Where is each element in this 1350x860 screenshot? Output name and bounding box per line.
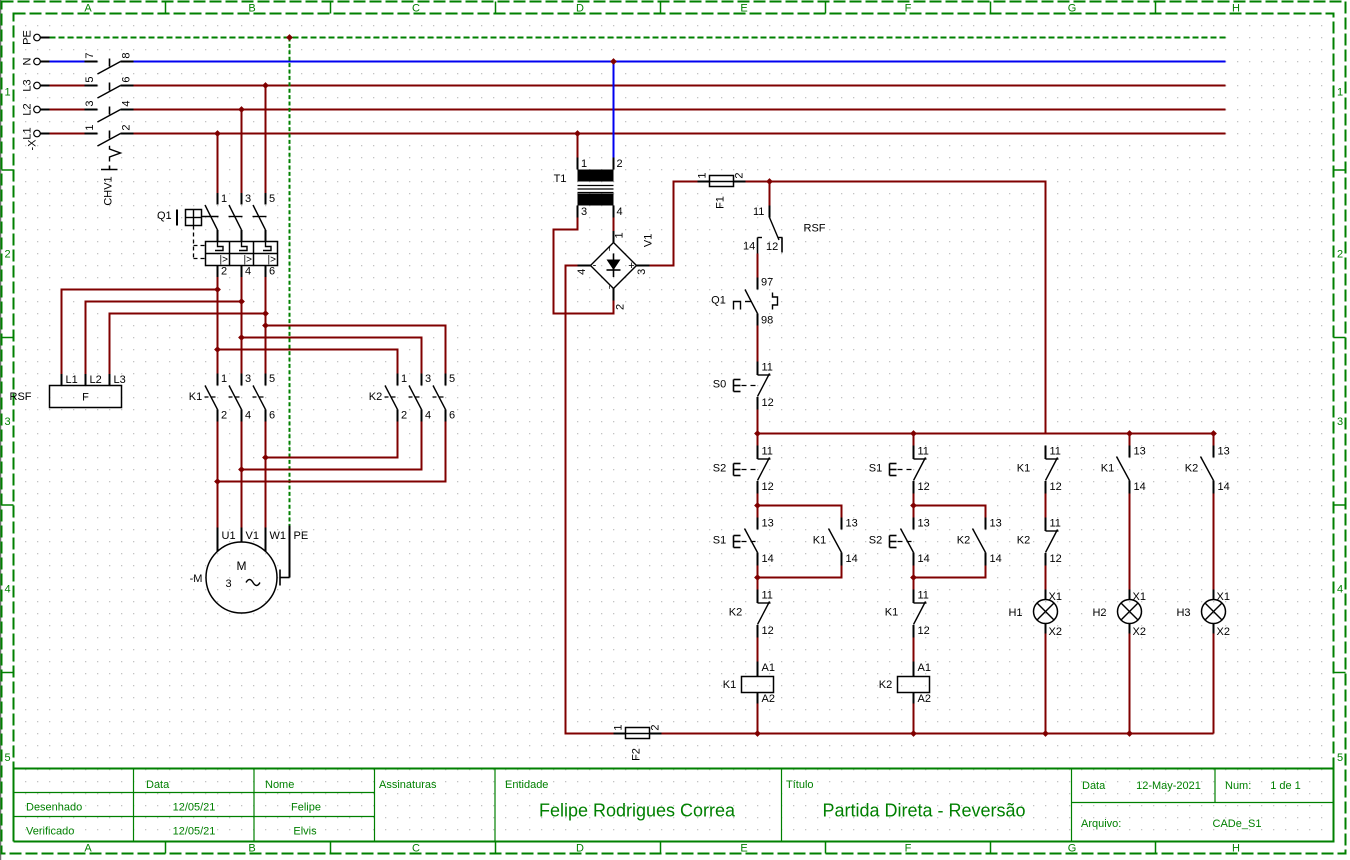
node bus col5 (1210, 430, 1217, 437)
wire L1 rail (50, 133, 1226, 135)
svg-text:2: 2 (121, 124, 133, 130)
node bus S0 (754, 430, 761, 437)
svg-text:3: 3 (245, 373, 251, 385)
svg-text:Desenhado: Desenhado (26, 802, 82, 814)
wire lamp H1 to bottom bus (1045, 634, 1047, 734)
node L1/T1 junction (574, 130, 581, 137)
pushbutton S2 NO contact col2 (901, 518, 930, 566)
svg-text:4: 4 (576, 269, 588, 275)
svg-text:S0: S0 (713, 379, 726, 391)
wire lamp H3 to bottom bus (1213, 634, 1215, 734)
svg-text:Num:: Num: (1225, 780, 1251, 792)
node F1 output junction (766, 178, 773, 185)
wire K2.2 crossover (266, 422, 398, 458)
wire PE rail (50, 37, 1226, 39)
contactor K2 main contacts (369, 373, 455, 422)
svg-text:S1: S1 (869, 463, 882, 475)
svg-text:L2: L2 (90, 374, 102, 386)
wire L3 rail (50, 85, 1226, 87)
wire Q1.6 to K1.5 (265, 277, 267, 374)
svg-text:K1: K1 (813, 535, 826, 547)
node crossover L1 (214, 478, 221, 485)
wire L2 rail (50, 109, 1226, 111)
node F tap L2 (238, 298, 245, 305)
svg-text:X1: X1 (1049, 591, 1062, 603)
svg-text:6: 6 (269, 266, 275, 278)
title block text (26, 779, 1301, 838)
interlock contact K1 11-12 (885, 590, 930, 638)
svg-text:CHV1: CHV1 (103, 176, 115, 205)
svg-text:L1: L1 (22, 127, 34, 139)
wire RSF.14 to Q1.97 (757, 254, 759, 278)
svg-text:11: 11 (918, 590, 929, 602)
svg-text:Q1: Q1 (157, 210, 172, 222)
svg-text:Partida Direta - Reversão: Partida Direta - Reversão (822, 801, 1025, 821)
svg-text:11: 11 (753, 206, 764, 218)
svg-text:97: 97 (761, 277, 773, 289)
svg-text:Felipe Rodrigues Correa: Felipe Rodrigues Correa (539, 801, 736, 821)
svg-text:5: 5 (1337, 752, 1343, 764)
svg-text:2: 2 (221, 410, 227, 422)
svg-text:14: 14 (990, 553, 1002, 565)
fuse F1 (697, 172, 746, 208)
node crossover L2 (238, 466, 245, 473)
pushbutton S2 actuator and label col2 (890, 536, 912, 548)
svg-text:11: 11 (1050, 518, 1061, 530)
svg-text:11: 11 (918, 446, 929, 458)
svg-text:2: 2 (401, 410, 407, 422)
svg-text:~: ~ (605, 245, 616, 251)
svg-text:4: 4 (4, 584, 10, 596)
svg-text:F: F (905, 843, 912, 855)
node bottom bus K1 (754, 730, 761, 737)
svg-text:Entidade: Entidade (505, 779, 548, 791)
svg-text:4: 4 (121, 100, 133, 106)
contactor K1 main contacts (189, 373, 275, 422)
wire V1.3 plus to F1 (650, 182, 698, 266)
contact K1 11-12 lamp column (1017, 446, 1062, 494)
svg-text:S2: S2 (869, 535, 882, 547)
svg-text:11: 11 (762, 590, 773, 602)
wire rail to RSF.11 (769, 182, 771, 206)
svg-text:1: 1 (581, 158, 587, 170)
wire F1 to control rail (746, 182, 1046, 434)
svg-text:PE: PE (294, 530, 309, 542)
wire bus to S1.11 (913, 434, 915, 446)
wire coil K1 to bottom bus (757, 704, 759, 734)
svg-text:X1: X1 (1133, 591, 1146, 603)
wire S2.12 to node (757, 494, 759, 518)
svg-text:A1: A1 (918, 662, 931, 674)
svg-text:1: 1 (614, 232, 626, 238)
wire seal branch bottom K2 (914, 566, 986, 578)
svg-text:B: B (248, 3, 255, 15)
svg-text:H2: H2 (1092, 607, 1106, 619)
svg-text:N: N (22, 57, 34, 65)
wire K2.4 crossover (242, 422, 422, 470)
svg-text:8: 8 (121, 52, 133, 58)
svg-text:M: M (237, 559, 247, 573)
circuit breaker Q1 (motor protective switch) (157, 193, 278, 278)
node seal branch K1 (754, 502, 761, 509)
svg-text:14: 14 (743, 241, 755, 253)
svg-text:Felipe: Felipe (291, 802, 321, 814)
node bottom bus H1 (1042, 730, 1049, 737)
svg-text:Q1: Q1 (711, 295, 726, 307)
svg-text:PE: PE (22, 30, 34, 45)
node F tap L1 (214, 286, 221, 293)
svg-text:3: 3 (4, 416, 10, 428)
svg-text:12/05/21: 12/05/21 (173, 802, 216, 814)
svg-text:-: - (593, 260, 597, 272)
svg-text:2: 2 (615, 304, 627, 310)
svg-text:L1: L1 (66, 374, 78, 386)
node bus col2 (910, 430, 917, 437)
svg-text:K1: K1 (1101, 463, 1114, 475)
svg-text:1: 1 (1337, 87, 1343, 99)
svg-text:1: 1 (697, 172, 709, 178)
wire control bus row3 (758, 433, 1214, 435)
lamp H3 (1176, 590, 1230, 639)
wire L2 feed to K2.3 (242, 338, 422, 374)
svg-text:H: H (1232, 3, 1240, 15)
wire K1.6 to motor W1 (265, 422, 267, 528)
svg-text:3: 3 (245, 193, 251, 205)
svg-text:1: 1 (401, 373, 407, 385)
svg-text:3: 3 (1337, 416, 1343, 428)
svg-text:2: 2 (1337, 249, 1343, 261)
node K2 feed L3 (262, 322, 269, 329)
wire K2.12 to lamp H1 (1045, 566, 1047, 590)
svg-text:12-May-2021: 12-May-2021 (1136, 780, 1201, 792)
svg-text:3: 3 (425, 373, 431, 385)
overload relay contact RSF 11-12-14 (743, 206, 826, 254)
wire Q1.98 to S0.11 (757, 326, 759, 362)
svg-text:K2: K2 (879, 679, 892, 691)
pushbutton S1 actuator and label (734, 536, 756, 548)
svg-text:3: 3 (581, 206, 587, 218)
svg-text:CADe_S1: CADe_S1 (1213, 818, 1262, 830)
svg-text:K1: K1 (723, 679, 736, 691)
svg-text:U1: U1 (222, 530, 236, 542)
svg-text:A1: A1 (762, 662, 775, 674)
wire S1.14 to node (757, 566, 759, 590)
svg-text:14: 14 (918, 553, 930, 565)
svg-text:L2: L2 (22, 103, 34, 115)
svg-text:5: 5 (269, 193, 275, 205)
node PE drop junction (286, 34, 293, 41)
wire K1.12 to coil K2 (913, 638, 915, 662)
svg-text:C: C (412, 843, 420, 855)
svg-text:2: 2 (650, 724, 662, 730)
svg-text:13: 13 (846, 518, 858, 530)
node bottom bus H2 (1126, 730, 1133, 737)
svg-text:2: 2 (221, 266, 227, 278)
transformer T1 (554, 158, 623, 219)
wire Q1.2 to K1.1 (217, 277, 219, 374)
wire T1.4 to V1.1 (613, 218, 615, 232)
svg-text:11: 11 (1050, 446, 1061, 458)
contact K1 13-14 lamp column (1101, 446, 1146, 494)
svg-text:|>: |> (268, 255, 277, 266)
svg-text:12: 12 (766, 241, 778, 253)
svg-text:Assinaturas: Assinaturas (379, 779, 437, 791)
svg-text:D: D (576, 843, 584, 855)
svg-text:13: 13 (1218, 446, 1230, 458)
wire K1.12 to K2.11 lamp column (1045, 494, 1047, 518)
wire N rail (50, 61, 1226, 63)
svg-text:11: 11 (762, 362, 773, 374)
svg-text:Elvis: Elvis (293, 826, 317, 838)
svg-text:X2: X2 (1049, 626, 1062, 638)
svg-text:K2: K2 (957, 535, 970, 547)
svg-text:L3: L3 (22, 79, 34, 91)
pushbutton S0 actuator and label (734, 380, 756, 392)
svg-text:H1: H1 (1008, 607, 1022, 619)
svg-text:G: G (1068, 843, 1077, 855)
lamp H2 (1092, 590, 1146, 639)
svg-text:-X: -X (27, 139, 39, 151)
svg-text:1: 1 (221, 193, 227, 205)
svg-text:~: ~ (605, 283, 616, 289)
node L1/Q1 junction (214, 130, 221, 137)
svg-text:A2: A2 (918, 693, 931, 705)
svg-text:K2: K2 (729, 607, 742, 619)
wire seal branch top K2 (914, 506, 986, 518)
svg-text:|>: |> (220, 255, 229, 266)
svg-text:12: 12 (918, 481, 930, 493)
svg-text:E: E (740, 843, 747, 855)
svg-text:A: A (84, 3, 92, 15)
svg-text:98: 98 (761, 315, 773, 327)
svg-text:S1: S1 (713, 535, 726, 547)
svg-text:12: 12 (762, 625, 774, 637)
wire Q1.4 to K1.3 (241, 277, 243, 374)
wire L1 drop to T1 (577, 134, 579, 158)
svg-text:13: 13 (990, 518, 1002, 530)
svg-text:F1: F1 (715, 196, 727, 209)
wire K2.6 crossover (218, 422, 446, 482)
block RSF F (soft starter / relay block) (10, 374, 126, 408)
wire L3 feed to K2.5 (266, 326, 446, 374)
svg-text:12: 12 (762, 397, 774, 409)
wire tap to F.L3 (110, 314, 266, 375)
wire bus to K2.13 (1213, 434, 1215, 446)
contact K2 13-14 lamp column (1185, 446, 1230, 494)
node seal branch K2 (910, 502, 917, 509)
svg-text:Data: Data (1082, 780, 1106, 792)
svg-text:14: 14 (762, 553, 774, 565)
node seal return K1 (754, 574, 761, 581)
svg-text:12/05/21: 12/05/21 (173, 826, 216, 838)
svg-text:6: 6 (121, 76, 133, 82)
contactor auxiliary K1 13-14 seal contact (813, 518, 858, 566)
node L2/Q1 junction (238, 106, 245, 113)
pushbutton S1 NO contact (745, 518, 774, 566)
svg-text:1: 1 (221, 373, 227, 385)
wire T1.3 to V1.2 (554, 218, 614, 314)
svg-text:14: 14 (846, 553, 858, 565)
svg-text:1: 1 (613, 724, 625, 730)
svg-text:B: B (248, 843, 255, 855)
svg-text:Arquivo:: Arquivo: (1081, 818, 1121, 830)
title block grid (14, 769, 1334, 842)
svg-text:3: 3 (636, 269, 648, 275)
svg-text:1: 1 (84, 124, 96, 130)
fuse F2 (613, 724, 662, 760)
svg-text:K1: K1 (885, 607, 898, 619)
svg-text:K1: K1 (1017, 463, 1030, 475)
svg-text:F: F (905, 3, 912, 15)
svg-text:5: 5 (84, 76, 96, 82)
node crossover L3 (262, 454, 269, 461)
svg-text:Nome: Nome (265, 779, 294, 791)
svg-text:5: 5 (269, 373, 275, 385)
svg-text:12: 12 (1050, 553, 1062, 565)
svg-text:13: 13 (762, 518, 774, 530)
pushbutton S2 actuator and label (734, 464, 756, 476)
node bus col4 (1126, 430, 1133, 437)
svg-text:K2: K2 (369, 391, 382, 403)
contactor auxiliary K2 13-14 seal contact (957, 518, 1002, 566)
contactor coil K1 A1-A2 (723, 662, 775, 706)
svg-text:K1: K1 (189, 391, 202, 403)
svg-text:13: 13 (918, 518, 930, 530)
wire tap to F.L2 (86, 302, 242, 375)
wire seal branch top K1 (758, 506, 842, 518)
wire V1.4 minus to bottom bus (566, 266, 614, 734)
wire K1.2 to motor U1 (217, 422, 219, 528)
svg-text:D: D (576, 3, 584, 15)
svg-text:1 de 1: 1 de 1 (1270, 780, 1301, 792)
svg-text:RSF: RSF (10, 391, 32, 403)
svg-text:X1: X1 (1217, 591, 1230, 603)
svg-text:3: 3 (225, 578, 231, 590)
svg-text:-M: -M (190, 573, 203, 585)
svg-text:X2: X2 (1217, 626, 1230, 638)
node L3/Q1 junction (262, 82, 269, 89)
svg-text:V1: V1 (246, 530, 259, 542)
wire K2.12 to coil K1 (757, 638, 759, 662)
contact K2 11-12 lamp column (1017, 518, 1062, 566)
svg-text:7: 7 (84, 52, 96, 58)
svg-text:L3: L3 (114, 374, 126, 386)
wire tap to F.L1 (62, 290, 218, 375)
wire N drop to T1 (613, 62, 615, 158)
svg-text:6: 6 (269, 410, 275, 422)
svg-text:F: F (82, 392, 89, 404)
svg-text:5: 5 (449, 373, 455, 385)
wire L1 drop to Q1 (217, 134, 219, 194)
svg-text:12: 12 (1050, 481, 1062, 493)
node bottom bus K2 (910, 730, 917, 737)
svg-text:W1: W1 (270, 530, 287, 542)
svg-text:2: 2 (616, 158, 622, 170)
svg-text:1: 1 (4, 87, 10, 99)
svg-text:F2: F2 (631, 748, 643, 761)
svg-text:+: + (628, 260, 634, 272)
wire lamp H2 to bottom bus (1129, 634, 1131, 734)
contactor coil K2 A1-A2 (879, 662, 931, 706)
wire L3 drop to Q1 (265, 86, 267, 194)
wire K2.14 to lamp H3 (1213, 494, 1215, 590)
svg-text:A2: A2 (762, 693, 775, 705)
wire L2 drop to Q1 (241, 110, 243, 194)
node F tap L3 (262, 310, 269, 317)
svg-text:6: 6 (449, 410, 455, 422)
svg-text:K2: K2 (1185, 463, 1198, 475)
svg-text:4: 4 (245, 410, 251, 422)
svg-text:RSF: RSF (804, 223, 826, 235)
svg-text:Data: Data (146, 779, 170, 791)
bridge rectifier V1 (576, 231, 654, 310)
pushbutton S1 NC contact col2 (914, 446, 930, 494)
svg-text:12: 12 (762, 481, 774, 493)
motor -M (3~ with PE) (190, 526, 309, 614)
svg-text:2: 2 (4, 249, 10, 261)
svg-text:G: G (1068, 3, 1077, 15)
wire L1 feed to K2.1 (218, 350, 398, 374)
svg-text:12: 12 (918, 625, 930, 637)
wire K1.14 to lamp H2 (1129, 494, 1131, 590)
interlock contact K2 11-12 (729, 590, 774, 638)
svg-text:4: 4 (425, 410, 431, 422)
lamp H1 (1008, 590, 1062, 639)
svg-text:Título: Título (786, 779, 814, 791)
wire bottom bus (662, 733, 1214, 735)
svg-text:K2: K2 (1017, 535, 1030, 547)
svg-text:14: 14 (1218, 481, 1230, 493)
svg-text:Verificado: Verificado (26, 826, 74, 838)
pushbutton S1 actuator and label col2 (890, 464, 912, 476)
svg-text:T1: T1 (554, 173, 567, 185)
switch CHV1 (4-pole isolator) (84, 52, 134, 205)
breaker auxiliary contact Q1 97-98 (711, 277, 777, 327)
wire K1.4 to motor V1 (241, 422, 243, 528)
wire bus to S2.11 (757, 434, 759, 446)
terminal strip -X with PE N L3 L2 L1 (22, 30, 50, 150)
node K2 feed L2 (238, 334, 245, 341)
svg-text:4: 4 (245, 266, 251, 278)
pushbutton S0 NC contact (758, 362, 774, 410)
svg-text:E: E (740, 3, 747, 15)
svg-text:4: 4 (1337, 584, 1343, 596)
svg-text:2: 2 (734, 172, 746, 178)
svg-text:H3: H3 (1176, 607, 1190, 619)
svg-text:4: 4 (616, 206, 622, 218)
node K2 feed L1 (214, 346, 221, 353)
node N drop junction (610, 58, 617, 65)
wire S1.12 to node col2 (913, 494, 915, 518)
pushbutton S2 NC contact (758, 446, 774, 494)
svg-text:V1: V1 (642, 234, 654, 247)
svg-text:|>: |> (244, 255, 253, 266)
wire S2.14 to node col2 (913, 566, 915, 590)
wire PE drop (289, 38, 291, 526)
svg-text:X2: X2 (1133, 626, 1146, 638)
wire S0.12 to bus (757, 410, 759, 434)
svg-text:A: A (84, 843, 92, 855)
wire seal branch bottom K1 (758, 566, 842, 578)
svg-text:14: 14 (1134, 481, 1146, 493)
svg-text:3: 3 (84, 100, 96, 106)
svg-text:13: 13 (1134, 446, 1146, 458)
node seal return K2 (910, 574, 917, 581)
svg-text:C: C (412, 3, 420, 15)
wire bus to K1.13 (1129, 434, 1131, 446)
wire coil K2 to bottom bus (913, 704, 915, 734)
svg-text:11: 11 (762, 446, 773, 458)
